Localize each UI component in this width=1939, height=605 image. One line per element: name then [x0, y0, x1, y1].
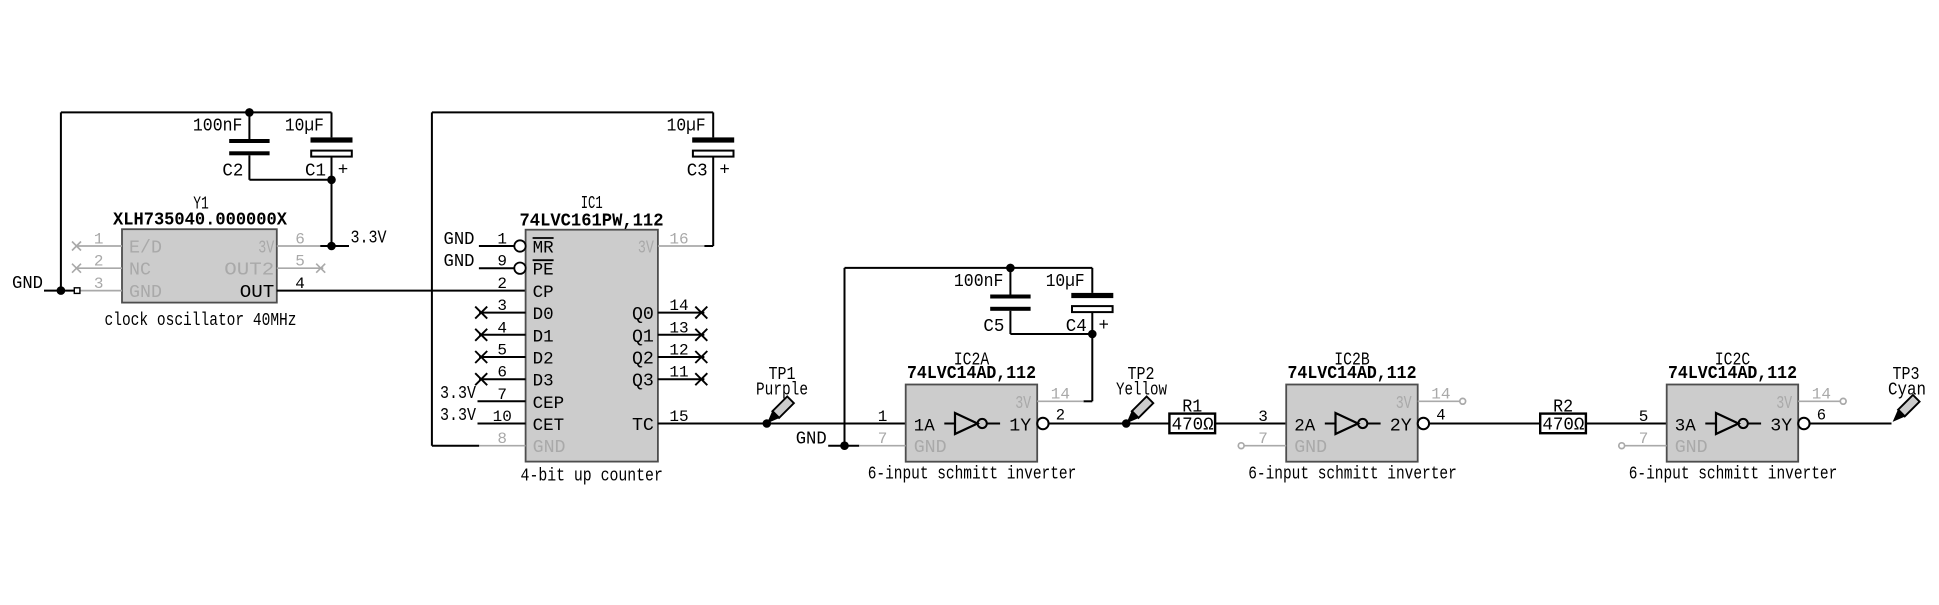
svg-text:+: +	[338, 160, 349, 180]
svg-text:Q3: Q3	[632, 372, 654, 392]
svg-text:GND: GND	[12, 274, 43, 294]
svg-text:Q2: Q2	[632, 350, 654, 370]
svg-text:GND: GND	[796, 429, 827, 449]
svg-text:2Y: 2Y	[1390, 416, 1412, 436]
svg-text:3Y: 3Y	[1770, 416, 1792, 436]
svg-text:OUT: OUT	[240, 283, 275, 303]
svg-text:4-bit up counter: 4-bit up counter	[521, 467, 663, 487]
svg-text:1: 1	[878, 408, 888, 426]
svg-text:470Ω: 470Ω	[1542, 416, 1584, 436]
svg-text:Cyan: Cyan	[1888, 380, 1926, 400]
svg-text:1Y: 1Y	[1009, 416, 1031, 436]
svg-text:2: 2	[94, 253, 104, 271]
svg-text:2A: 2A	[1294, 416, 1316, 436]
svg-text:OUT2: OUT2	[224, 261, 274, 281]
svg-text:74LVC161PW,112: 74LVC161PW,112	[520, 212, 664, 232]
svg-text:GND: GND	[444, 252, 475, 272]
svg-text:R1: R1	[1182, 397, 1202, 417]
svg-text:7: 7	[497, 386, 507, 404]
svg-text:CEP: CEP	[533, 394, 565, 414]
svg-text:3V: 3V	[638, 239, 654, 259]
svg-text:14: 14	[1812, 386, 1831, 404]
svg-text:E/D: E/D	[129, 239, 162, 259]
svg-text:3: 3	[94, 275, 104, 293]
svg-text:5: 5	[497, 342, 507, 360]
svg-text:GND: GND	[1294, 438, 1327, 458]
svg-text:3: 3	[497, 297, 507, 315]
svg-text:CP: CP	[533, 283, 554, 303]
svg-text:3.3V: 3.3V	[351, 229, 387, 249]
svg-text:11: 11	[669, 364, 688, 382]
svg-text:C3: C3	[687, 161, 708, 181]
svg-text:3.3V: 3.3V	[440, 406, 476, 426]
svg-text:10µF: 10µF	[1046, 272, 1085, 292]
svg-text:D3: D3	[533, 372, 554, 392]
svg-text:R2: R2	[1553, 397, 1573, 417]
svg-text:6: 6	[1817, 407, 1826, 425]
svg-text:2: 2	[1056, 407, 1065, 425]
svg-text:GND: GND	[533, 438, 566, 458]
svg-text:6-input schmitt inverter: 6-input schmitt inverter	[1629, 464, 1838, 484]
svg-text:8: 8	[497, 430, 507, 448]
svg-text:12: 12	[669, 342, 688, 360]
svg-text:C4: C4	[1066, 317, 1087, 337]
svg-text:10µF: 10µF	[667, 116, 706, 136]
svg-text:TC: TC	[632, 416, 654, 436]
svg-text:D1: D1	[533, 327, 554, 347]
svg-text:7: 7	[1258, 430, 1268, 448]
svg-text:6: 6	[497, 364, 507, 382]
svg-text:CET: CET	[533, 416, 565, 436]
svg-text:+: +	[1099, 316, 1110, 336]
svg-text:XLH735040.000000X: XLH735040.000000X	[113, 210, 287, 230]
svg-text:14: 14	[1431, 386, 1450, 404]
svg-text:9: 9	[497, 253, 507, 271]
svg-text:4: 4	[497, 319, 507, 337]
svg-text:10: 10	[493, 408, 512, 426]
svg-text:10µF: 10µF	[285, 116, 324, 136]
svg-text:GND: GND	[444, 230, 475, 250]
svg-text:GND: GND	[1675, 438, 1708, 458]
svg-text:GND: GND	[914, 438, 947, 458]
svg-text:14: 14	[669, 297, 688, 315]
svg-text:1: 1	[94, 231, 104, 249]
svg-text:PE: PE	[533, 261, 554, 281]
svg-text:Q1: Q1	[632, 327, 654, 347]
svg-text:GND: GND	[129, 283, 162, 303]
svg-text:C5: C5	[983, 317, 1004, 337]
svg-text:NC: NC	[129, 261, 151, 281]
svg-text:Yellow: Yellow	[1116, 380, 1167, 400]
svg-text:C1: C1	[305, 161, 326, 181]
svg-text:1: 1	[497, 231, 507, 249]
svg-text:6-input schmitt inverter: 6-input schmitt inverter	[868, 464, 1077, 484]
svg-text:470Ω: 470Ω	[1172, 416, 1214, 436]
svg-text:3V: 3V	[258, 239, 274, 259]
svg-text:clock oscillator 40MHz: clock oscillator 40MHz	[105, 311, 297, 331]
svg-text:+: +	[719, 160, 730, 180]
svg-text:3A: 3A	[1675, 416, 1697, 436]
svg-text:Q0: Q0	[632, 305, 654, 325]
svg-text:6-input schmitt inverter: 6-input schmitt inverter	[1248, 464, 1457, 484]
svg-text:14: 14	[1051, 386, 1070, 404]
svg-text:3V: 3V	[1396, 394, 1412, 414]
svg-text:3.3V: 3.3V	[440, 384, 476, 404]
svg-text:1A: 1A	[914, 416, 936, 436]
svg-text:74LVC14AD,112: 74LVC14AD,112	[1668, 364, 1797, 384]
svg-text:100nF: 100nF	[954, 272, 1004, 292]
svg-text:7: 7	[878, 430, 888, 448]
svg-text:3V: 3V	[1015, 394, 1031, 414]
svg-text:74LVC14AD,112: 74LVC14AD,112	[1288, 364, 1417, 384]
svg-text:2: 2	[497, 275, 507, 293]
svg-text:3V: 3V	[1776, 394, 1792, 414]
svg-text:D2: D2	[533, 350, 554, 370]
svg-text:7: 7	[1639, 430, 1649, 448]
svg-text:C2: C2	[222, 161, 243, 181]
svg-text:MR: MR	[533, 239, 555, 259]
svg-text:74LVC14AD,112: 74LVC14AD,112	[907, 364, 1036, 384]
svg-text:3: 3	[1258, 408, 1268, 426]
svg-text:5: 5	[1639, 408, 1649, 426]
svg-text:100nF: 100nF	[193, 116, 243, 136]
svg-text:Purple: Purple	[756, 380, 808, 400]
svg-text:4: 4	[1436, 407, 1445, 425]
svg-text:13: 13	[669, 319, 688, 337]
svg-text:D0: D0	[533, 305, 554, 325]
